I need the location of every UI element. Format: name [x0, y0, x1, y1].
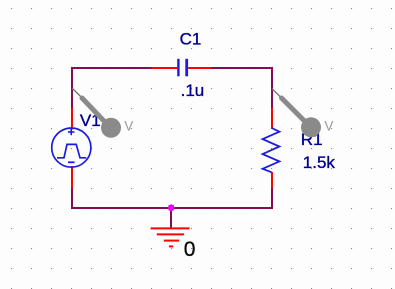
wire right vertical upper segment: [271, 67, 273, 108]
wire right vertical lower segment: [271, 188, 273, 209]
voltage source V1 reference label: [80, 111, 101, 130]
wire left vertical upper segment: [71, 67, 73, 108]
voltage probe marker at node V1 (head): [101, 118, 121, 138]
resistor R1 zigzag body: [263, 128, 280, 172]
svg-text:0: 0: [184, 238, 196, 261]
voltage probe marker at node R1 (leader line): [272, 89, 280, 97]
voltage probe marker at node V1 (leader line): [72, 88, 81, 97]
wire left vertical lower segment: [71, 188, 73, 209]
voltage source V1 plus sign: [68, 129, 74, 135]
voltage probe marker at node R1 (head): [301, 117, 321, 137]
wire bottom horizontal segment: [71, 207, 273, 209]
voltage probe marker at node V1 (shaft): [82, 98, 104, 121]
voltage source V1 pin top: [71, 108, 73, 130]
svg-text:V: V: [324, 118, 333, 133]
resistor R1 pin bottom: [271, 172, 273, 188]
capacitor C1 pin right: [188, 67, 211, 69]
wire top-right horizontal segment: [212, 67, 274, 69]
resistor R1 reference label: [301, 130, 323, 149]
capacitor C1 pin left: [152, 67, 178, 69]
capacitor C1 plates: [178, 59, 186, 77]
wire top-left horizontal segment: [71, 67, 152, 69]
voltage source V1 pulse waveform symbol: [57, 144, 86, 157]
ground junction node dot: [167, 204, 175, 212]
svg-text:V: V: [124, 118, 133, 133]
resistor R1 pin top: [271, 108, 273, 128]
ground symbol 0 (earth bars): [151, 228, 190, 246]
resistor R1 value label 1.5k: [303, 153, 336, 172]
voltage probe marker at node R1 (shaft): [282, 98, 305, 121]
svg-text:.1u: .1u: [181, 81, 205, 100]
voltage source V1 body circle: [52, 128, 91, 167]
ground net name label 0: [184, 238, 196, 261]
voltage probe marker at node V1 (V letter): [124, 118, 133, 133]
svg-text:1.5k: 1.5k: [303, 153, 336, 172]
svg-text:C1: C1: [180, 30, 202, 49]
wire ground stub: [170, 208, 172, 228]
voltage source V1 minus sign: [68, 161, 75, 163]
capacitor C1 value label .1u: [181, 81, 205, 100]
voltage probe marker at node R1 (V letter): [324, 118, 333, 133]
capacitor C1 reference label: [180, 30, 202, 49]
voltage source V1 pin bottom: [71, 166, 73, 189]
